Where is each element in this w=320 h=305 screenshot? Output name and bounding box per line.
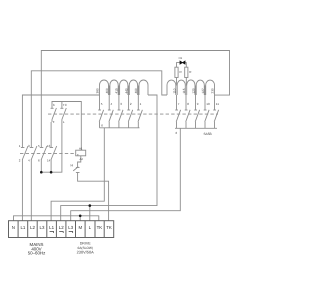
svg-text:DRIVE: DRIVE [80, 241, 92, 245]
svg-text:R: R [180, 70, 183, 74]
selector S2 contact 5 [98, 95, 103, 128]
svg-text:6: 6 [38, 159, 40, 163]
selector S2 contact 10 [204, 95, 209, 128]
svg-text:F: F [53, 120, 55, 124]
selector S2 contact 8 [185, 95, 190, 128]
svg-text:11: 11 [216, 102, 219, 106]
wire H to TK2 [78, 173, 109, 221]
wire N to M TK [14, 216, 99, 221]
svg-text:1: 1 [140, 102, 142, 106]
aux block top wire to coil [52, 102, 81, 151]
svg-text:230: 230 [210, 88, 214, 93]
svg-text:H1: H1 [179, 56, 183, 60]
resistor R1 [176, 78, 178, 86]
svg-text:M: M [78, 225, 82, 230]
svg-text:127: 127 [201, 88, 205, 93]
transformer T1 winding right [167, 80, 215, 95]
wire right bank rail [175, 127, 217, 129]
svg-text:110: 110 [172, 88, 176, 93]
rotated tap voltage labels left [95, 88, 138, 93]
svg-text:N: N [12, 225, 15, 230]
mechanical link dashed upper [48, 113, 218, 115]
svg-text:440: 440 [124, 88, 128, 93]
svg-text:b: b [53, 103, 55, 107]
svg-text:A2: A2 [80, 157, 84, 161]
svg-text:1: 1 [19, 144, 21, 148]
labels selector right 7..11 [176, 102, 220, 135]
aux contact 14 [61, 102, 63, 109]
wire left winding end to common [61, 95, 157, 221]
svg-text:415: 415 [115, 88, 119, 93]
svg-text:L1: L1 [20, 225, 25, 230]
aux contact 13 [51, 107, 54, 109]
prime marks under L1p L2p L3p [50, 232, 73, 234]
svg-text:TK: TK [106, 225, 112, 230]
switch Q1 contact 2 [30, 159, 32, 221]
svg-text:5: 5 [38, 144, 40, 148]
svg-text:H: H [71, 164, 74, 168]
rotated tap voltage labels right [172, 88, 214, 93]
selector S2 contact 3 [118, 95, 123, 128]
svg-text:L: L [89, 225, 92, 230]
wire left winding taps [108, 86, 110, 96]
selector S2 contact 4 [108, 95, 113, 128]
svg-text:L3: L3 [68, 225, 73, 230]
svg-text:115: 115 [182, 88, 186, 93]
svg-text:230V/50A: 230V/50A [77, 249, 94, 254]
svg-text:2: 2 [19, 159, 21, 163]
selector S2 contact 9 [194, 95, 199, 128]
terminal labels [12, 225, 112, 230]
svg-text:380: 380 [95, 88, 99, 93]
svg-text:L2: L2 [59, 225, 64, 230]
wire left bank common 6 to L1p [51, 128, 104, 221]
transformer T1 winding left [100, 80, 149, 95]
text DRIVE [77, 241, 94, 254]
selector S2 contact 2 [127, 95, 132, 128]
svg-text:L3: L3 [40, 225, 45, 230]
svg-text:A1: A1 [79, 147, 83, 151]
wire bus L2 middle [31, 71, 167, 148]
svg-text:6: 6 [176, 131, 178, 135]
small labels main switch [19, 144, 51, 163]
wire right bank common to L3p [71, 128, 181, 220]
switch Q1 contact 1 [21, 159, 23, 221]
svg-text:TK: TK [97, 225, 103, 230]
svg-text:9: 9 [197, 102, 199, 106]
svg-text:10: 10 [206, 102, 210, 106]
resistor R2 [185, 78, 187, 86]
selector S2 contact 1 [137, 95, 142, 128]
small labels aux block [53, 103, 68, 124]
svg-text:400: 400 [105, 88, 109, 93]
svg-text:L: L [63, 120, 65, 124]
selector S2 contact 11 [213, 95, 218, 128]
svg-text:8: 8 [187, 102, 189, 106]
wire link contacts 3-4-aux [41, 122, 62, 172]
svg-text:460: 460 [134, 88, 138, 93]
svg-text:7: 7 [178, 102, 180, 106]
terminal strip X1 [9, 221, 114, 238]
text MAINS [28, 242, 46, 256]
wire L drop [89, 206, 91, 221]
switch Q1 contact 4 [50, 122, 52, 148]
svg-text:5: 5 [101, 102, 103, 106]
svg-text:50–60Hz: 50–60Hz [28, 250, 46, 255]
wire left bank rail [100, 127, 140, 129]
labels selector left 5..1 [101, 102, 142, 128]
svg-text:13: 13 [47, 144, 51, 148]
svg-text:4: 4 [111, 102, 113, 106]
contact H [76, 167, 80, 169]
junction dots [40, 171, 91, 217]
svg-text:120: 120 [191, 88, 195, 93]
wire bus L3 top [41, 51, 229, 148]
wire M drop [79, 216, 81, 221]
svg-text:2: 2 [130, 102, 132, 106]
svg-text:4: 4 [28, 159, 30, 163]
svg-text:3: 3 [28, 144, 30, 148]
svg-text:6: 6 [101, 124, 103, 128]
svg-text:L1: L1 [49, 225, 54, 230]
svg-text:L2: L2 [30, 225, 35, 230]
lamp H1 bowtie [180, 60, 186, 64]
labels coil A1 A2 [77, 147, 83, 161]
svg-text:R: R [189, 70, 192, 74]
svg-text:SA5B: SA5B [204, 132, 212, 136]
selector S2 contact 7 [175, 95, 180, 128]
wire coil to H contact [78, 156, 81, 168]
switch Q1 contact 3 [40, 159, 42, 172]
svg-text:TC: TC [63, 103, 68, 107]
svg-text:3: 3 [120, 102, 122, 106]
svg-text:14: 14 [47, 159, 51, 163]
mechanical link dashed lower [20, 152, 76, 154]
coil U< box [76, 150, 86, 156]
wire bus L1 lower [22, 95, 99, 148]
wire right winding taps [195, 86, 197, 96]
